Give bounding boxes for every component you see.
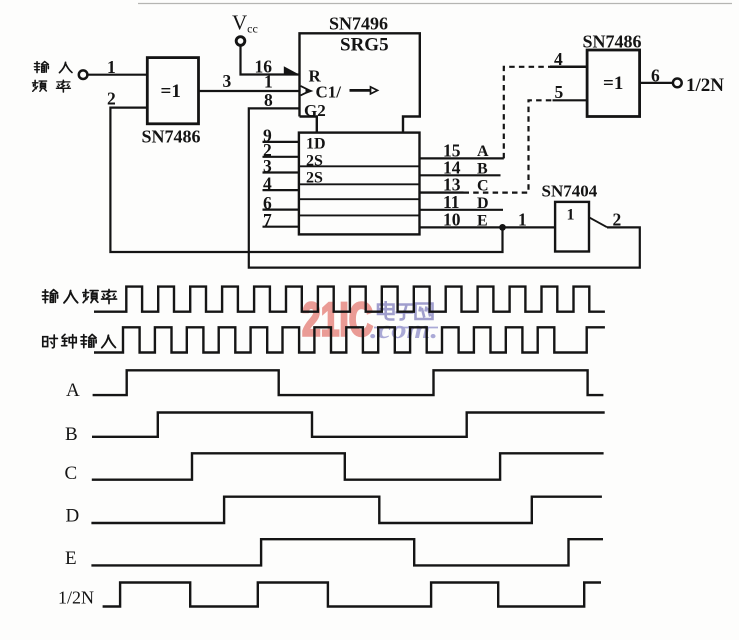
wire U1 pin3 output to U2 C1 [199, 90, 300, 92]
U4 output triangle edge [589, 217, 607, 227]
waveform clock input [94, 327, 605, 352]
svg-text:D: D [66, 505, 80, 526]
wire output A pin15 [420, 157, 504, 159]
waveform B [92, 413, 605, 437]
faint scan line top [138, 3, 732, 5]
wire U2 pin4 stub [263, 189, 299, 191]
Vcc symbol circle [236, 37, 245, 46]
svg-text:2S: 2S [306, 169, 323, 186]
wire U2 pin2 stub [263, 156, 299, 158]
svg-text:C1/: C1/ [316, 83, 342, 102]
svg-text:10: 10 [443, 209, 461, 229]
node IN: input terminal circle [79, 70, 88, 79]
svg-text:=1: =1 [161, 81, 181, 102]
svg-text:7: 7 [263, 210, 272, 230]
svg-text:1: 1 [518, 210, 527, 230]
svg-text:SN7486: SN7486 [142, 127, 201, 147]
wire U3 pin5 [553, 99, 588, 101]
wire U3 pin6 output [640, 82, 673, 84]
waveform E [91, 539, 603, 565]
svg-text:1: 1 [567, 207, 575, 224]
svg-text:A: A [66, 380, 80, 401]
svg-text:5: 5 [555, 82, 564, 102]
U2 C1 shift arrow [350, 89, 371, 92]
wire output E pin10 to U4 [420, 226, 556, 228]
dashed net A to U3 pin4 [504, 67, 550, 159]
label shuru pinlv (input frequency) [33, 61, 72, 92]
pin16 polarity wedge [284, 66, 300, 74]
svg-text:B: B [65, 424, 78, 445]
wire U2 pin8 from U3 output loop [249, 108, 640, 267]
svg-text:1: 1 [264, 72, 273, 92]
svg-text:A: A [477, 143, 489, 160]
watermark .com [370, 315, 438, 344]
svg-text:2: 2 [107, 89, 116, 109]
watermark 21IC [302, 293, 373, 346]
svg-text:E: E [65, 548, 77, 569]
svg-text:3: 3 [223, 71, 232, 91]
svg-text:1D: 1D [306, 136, 326, 153]
wire U1 pin2 feedback from node E [110, 108, 502, 252]
XOR gate U3 (SN7486) box [587, 50, 640, 117]
svg-text:SRG5: SRG5 [340, 35, 389, 56]
svg-text:C: C [65, 463, 78, 484]
svg-text:C: C [477, 178, 489, 195]
wire U2 pin3 stub [263, 171, 299, 173]
svg-text:1/2N: 1/2N [686, 75, 724, 96]
waveform 1/2N [103, 583, 601, 607]
svg-text:B: B [477, 160, 488, 177]
svg-text:D: D [477, 195, 489, 212]
wire U2 pin7 stub [263, 226, 299, 228]
label shizhong shuru (clock input) [43, 334, 116, 348]
shift register U2 (SN7496) control block [300, 33, 420, 132]
svg-text:1/2N: 1/2N [58, 588, 94, 608]
svg-text:1: 1 [107, 57, 116, 77]
XOR gate U1 (SN7486) box [147, 58, 198, 124]
svg-text:4: 4 [263, 174, 272, 194]
wire Vcc to U2 pin16 [241, 45, 300, 75]
waveform C [92, 453, 604, 479]
node OUT terminal circle [673, 79, 682, 88]
svg-text:4: 4 [554, 49, 563, 69]
wire output C pin13 [420, 191, 464, 193]
wire U3 pin4 [550, 66, 587, 69]
U2 register row dividers [299, 166, 420, 215]
watermark dian zi wang [378, 301, 433, 320]
node E junction dot [499, 224, 506, 231]
waveform D [91, 497, 602, 523]
svg-text:G2: G2 [304, 101, 326, 120]
wire input terminal to U1 pin1 [87, 74, 147, 76]
svg-text:SN7486: SN7486 [583, 32, 642, 52]
svg-text:E: E [477, 212, 488, 229]
wire U2 pin6 stub [263, 209, 299, 211]
svg-text:6: 6 [651, 66, 660, 86]
waveform A [93, 370, 604, 395]
svg-text:=1: =1 [603, 73, 623, 94]
waveform input frequency [94, 287, 605, 312]
svg-text:SN7404: SN7404 [542, 182, 598, 201]
svg-text:8: 8 [264, 90, 273, 110]
svg-text:SN7496: SN7496 [329, 14, 388, 34]
inverter U4 (SN7404) box [555, 202, 589, 252]
label shuru pinlv waveform row [42, 289, 116, 303]
U2 register block [299, 133, 420, 235]
wire output B pin14 [420, 174, 501, 176]
wire output D pin11 [420, 209, 504, 211]
U2 C1 dynamic-input wedge [301, 86, 311, 96]
dashed net C to U3 pin5 [464, 100, 553, 192]
svg-text:2: 2 [613, 210, 622, 230]
svg-text:2S: 2S [306, 152, 323, 169]
wire U2 pin9 stub [263, 141, 299, 143]
